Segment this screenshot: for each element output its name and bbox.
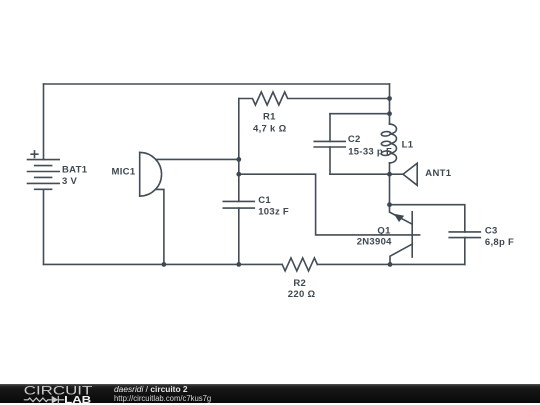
wire left node vertical (R1/C1/mic) [238, 99, 240, 202]
wire MIC1 bottom lead [156, 189, 164, 264]
resistor R2 [282, 258, 317, 271]
capacitor C2 [314, 141, 345, 147]
footer url line [114, 394, 211, 403]
svg-text:ANT1: ANT1 [425, 168, 451, 179]
junction dot base branch node [236, 172, 241, 177]
wire battery negative lead [43, 189, 45, 264]
footer bar [0, 384, 540, 403]
footer credit line [114, 385, 188, 394]
CircuitLab logo [0, 384, 100, 405]
svg-text:Q1: Q1 [377, 225, 391, 236]
svg-text:3 V: 3 V [62, 176, 78, 187]
wire C2 top lead [329, 114, 331, 142]
wire bottom rail left [44, 263, 283, 265]
junction dot tank bottom / antenna node [387, 172, 392, 177]
microphone MIC1 [140, 152, 162, 196]
junction dot emitter node [387, 202, 392, 207]
wire main node vertical upper [389, 99, 391, 125]
svg-text:R2: R2 [293, 278, 306, 289]
junction dot R1 right node [387, 96, 392, 101]
wire L1 bottom lead [389, 163, 391, 174]
junction dot mic bottom rail [162, 262, 167, 267]
wire tank bottom [330, 173, 390, 175]
resistor R1 [239, 92, 390, 105]
wire battery positive lead [43, 84, 45, 159]
wire C3 bottom lead [464, 238, 466, 265]
svg-text:R1: R1 [263, 112, 276, 123]
junction dot mic top node [236, 157, 241, 162]
transistor Q1 [390, 205, 413, 265]
wire top rail [44, 83, 390, 85]
antenna ANT1 [403, 163, 417, 185]
junction dot collector rail [388, 262, 393, 267]
inductor L1 [381, 124, 396, 163]
junction dot tank top node [387, 111, 392, 116]
wire emitter node vertical [389, 174, 391, 205]
svg-text:6,8p F: 6,8p F [485, 237, 514, 248]
wire base branch [239, 174, 420, 235]
svg-text:C3: C3 [485, 225, 498, 236]
capacitor C3 [449, 232, 480, 238]
wire C1 bottom lead [238, 208, 240, 264]
svg-text:4,7 k Ω: 4,7 k Ω [253, 124, 287, 135]
svg-text:BAT1: BAT1 [62, 165, 88, 176]
wire C3 top lead to emitter node [390, 205, 465, 232]
wire top-right drop to R1 node [389, 84, 391, 99]
wire MIC1 top output [156, 158, 239, 160]
capacitor C1 [223, 201, 254, 208]
svg-text:103z F: 103z F [258, 206, 289, 217]
wire C2 bottom lead [329, 147, 331, 174]
wire tank top [330, 113, 390, 115]
junction dot C1 bottom rail [236, 262, 241, 267]
svg-text:C2: C2 [348, 134, 361, 145]
wire antenna stub [390, 173, 404, 175]
wire bottom rail right [317, 263, 465, 265]
svg-text:LAB: LAB [64, 395, 91, 405]
svg-text:2N3904: 2N3904 [357, 237, 392, 248]
svg-text:220 Ω: 220 Ω [288, 289, 316, 300]
svg-text:C1: C1 [258, 195, 271, 206]
battery BAT1 [28, 151, 60, 189]
svg-text:MIC1: MIC1 [112, 166, 136, 177]
svg-text:L1: L1 [402, 140, 414, 151]
